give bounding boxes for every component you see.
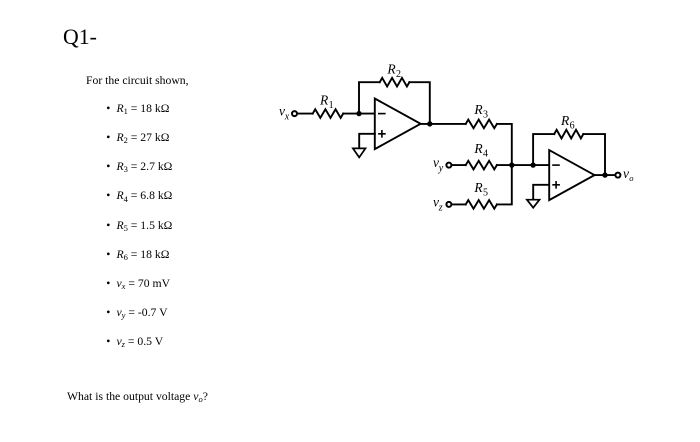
terminal vo bbox=[615, 173, 620, 178]
resistor R6 bbox=[554, 130, 583, 139]
resistor R3 bbox=[466, 120, 497, 129]
wire vy to R4 bbox=[452, 164, 466, 166]
label R1 bbox=[319, 92, 334, 111]
op-amp U2 bbox=[549, 150, 594, 200]
svg-text:R: R bbox=[473, 141, 483, 156]
wire U2 output to terminal vo bbox=[595, 174, 616, 176]
resistor R4 bbox=[466, 161, 497, 170]
ground (U1 non-inverting) bbox=[353, 148, 366, 157]
label R5 bbox=[473, 180, 488, 199]
svg-text:y: y bbox=[438, 163, 444, 174]
terminal vx bbox=[292, 111, 297, 116]
wire U1 output to R3 bbox=[421, 123, 466, 125]
node E (U2 output) bbox=[602, 172, 607, 177]
svg-text:4: 4 bbox=[483, 149, 488, 160]
label vo bbox=[623, 166, 633, 183]
svg-text:v: v bbox=[623, 166, 629, 181]
label R6 bbox=[560, 113, 575, 132]
label R3 bbox=[473, 102, 488, 121]
node D (feedback tap) bbox=[530, 162, 535, 167]
resistor R1 bbox=[313, 109, 344, 118]
wire R3 to summing node bbox=[497, 124, 512, 165]
label R2 bbox=[386, 62, 401, 81]
svg-text:R: R bbox=[386, 62, 396, 77]
resistor R2 bbox=[380, 78, 410, 87]
wire vx to R1 bbox=[297, 113, 313, 115]
label vy bbox=[433, 155, 444, 174]
wire node D up to R6 bbox=[533, 134, 554, 165]
label vx bbox=[279, 104, 290, 123]
svg-text:z: z bbox=[438, 202, 443, 213]
label R4 bbox=[473, 141, 488, 160]
terminal vy bbox=[446, 163, 451, 168]
terminal vz bbox=[446, 202, 451, 207]
title Q1- bbox=[63, 25, 97, 50]
svg-text:5: 5 bbox=[483, 188, 488, 199]
svg-text:R: R bbox=[319, 92, 329, 107]
node A (inverting input junction) bbox=[356, 111, 361, 116]
svg-text:1: 1 bbox=[329, 100, 334, 111]
op-amp U1 bbox=[375, 99, 421, 150]
svg-text:3: 3 bbox=[483, 110, 488, 121]
svg-text:6: 6 bbox=[570, 121, 575, 132]
wire R5 to summing node bbox=[497, 165, 512, 204]
wire vz to R5 bbox=[452, 203, 466, 205]
svg-text:o: o bbox=[629, 173, 633, 183]
wire R4 to summing node bbox=[497, 164, 512, 166]
label vz bbox=[433, 195, 443, 214]
wire U2 non-inverting input to ground bbox=[533, 185, 549, 200]
wire U1 non-inverting input to ground bbox=[359, 134, 375, 149]
bullet list of values bbox=[106, 102, 169, 115]
svg-text:x: x bbox=[284, 111, 290, 122]
node B (U1 output) bbox=[427, 121, 432, 126]
question text bbox=[67, 390, 208, 403]
wire R6 to U2 output bbox=[583, 134, 605, 175]
svg-text:R: R bbox=[473, 102, 483, 117]
ground (U2 non-inverting) bbox=[527, 200, 540, 208]
svg-text:R: R bbox=[560, 113, 570, 128]
wire summing node to op-amp U2 bbox=[512, 164, 549, 166]
wire R2 to op-amp U1 output bbox=[409, 82, 429, 124]
svg-text:2: 2 bbox=[396, 69, 401, 80]
wire node A up to feedback bbox=[359, 82, 380, 113]
wire R1 to node A bbox=[343, 113, 375, 115]
resistor R5 bbox=[466, 200, 497, 209]
svg-text:R: R bbox=[473, 180, 483, 195]
node C (summing junction) bbox=[509, 162, 514, 167]
intro text bbox=[86, 74, 189, 87]
